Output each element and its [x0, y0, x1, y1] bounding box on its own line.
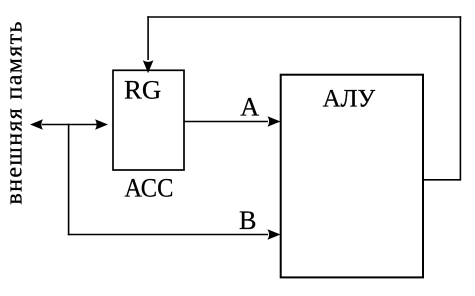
svg-text:АСС: АСС [124, 173, 173, 203]
wire: feedback lower horizontal into ALU right edge [423, 179, 460, 181]
wire: feedback top horizontal [147, 16, 461, 18]
wire: memory double-headed bus [42, 124, 97, 126]
wire: feedback right vertical [459, 16, 461, 180]
wire: A bus from RG to ALU [184, 121, 268, 123]
arrowhead left (to memory) [30, 119, 43, 130]
svg-text:RG: RG [124, 75, 161, 105]
svg-text:В: В [239, 206, 256, 235]
wire: B bus horizontal into ALU [68, 234, 268, 236]
svg-text:А: А [240, 93, 259, 122]
svg-text:внешняя память: внешняя память [2, 21, 28, 204]
arrowhead into RG top [143, 60, 154, 73]
arrowhead A into ALU [268, 116, 281, 127]
register RG box [113, 70, 184, 170]
ALU box [281, 75, 423, 278]
wire: B bus vertical from memory bus junction [68, 124, 70, 236]
arrowhead right (to RG) [95, 119, 108, 130]
arrowhead B into ALU [268, 229, 281, 240]
wire: feedback drop into RG top [147, 16, 149, 60]
svg-text:АЛУ: АЛУ [323, 86, 376, 113]
